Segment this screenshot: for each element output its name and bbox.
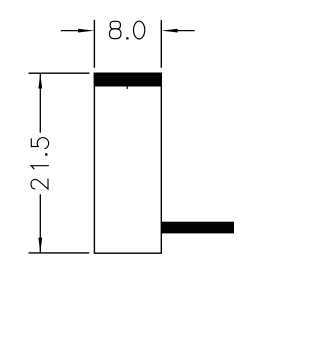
- dim 21.5 dimension line lower segment: [39, 194, 41, 253]
- dim 21.5 top extension line: [29, 72, 90, 74]
- dim 8.0 right extension line: [160, 20, 162, 68]
- decimal point: [45, 153, 47, 155]
- dim 8.0 text: digit 8 top loop: [110, 21, 120, 29]
- dim 21.5 bottom arrowhead: [38, 238, 42, 253]
- dim 21.5 dimension line upper segment: [39, 73, 41, 133]
- dim 21.5 top arrowhead: [38, 73, 42, 88]
- dim 8.0 left arrowhead: [78, 29, 94, 33]
- dim 21.5 bottom extension line: [29, 252, 90, 254]
- dim 8.0 left extension line: [93, 20, 95, 68]
- dim 8.0 text: digit 0: [134, 21, 145, 39]
- digit 1: [31, 166, 49, 170]
- digit 2: [31, 179, 48, 189]
- dim 8.0 text: digit 8 bottom loop: [110, 29, 121, 39]
- right lead bar (filled): [162, 222, 234, 234]
- dim 8.0 text: decimal point: [126, 37, 128, 39]
- dim 8.0 right arrowhead: [161, 29, 177, 33]
- dim 21.5 rotated text group: [31, 138, 49, 189]
- top electrode bar (filled): [94, 73, 162, 87]
- dim 8.0 left arrow tail: [61, 30, 79, 32]
- part body outline: [94, 73, 161, 253]
- center tick below top bar: [126, 87, 128, 90]
- digit 5: [31, 138, 48, 149]
- dim 8.0 right arrow tail: [177, 30, 195, 32]
